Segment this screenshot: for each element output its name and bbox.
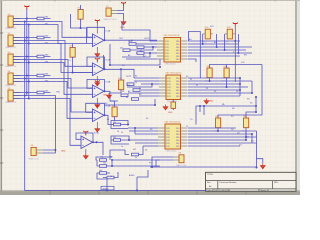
feedback wire IC2A bbox=[87, 57, 105, 69]
wire X5 to X6 bbox=[13, 96, 55, 154]
svg-text:GND: GND bbox=[61, 151, 66, 153]
wire out IC4A bbox=[104, 115, 111, 124]
wire input 5a bbox=[13, 92, 51, 94]
svg-text:Z3: Z3 bbox=[206, 88, 208, 90]
svg-text:AGND: AGND bbox=[103, 187, 109, 190]
supply arrow below U5 bbox=[163, 105, 168, 110]
wire input 1b bbox=[13, 22, 93, 38]
wire cluster bottom bbox=[96, 157, 160, 191]
connector X4 bbox=[6, 71, 21, 87]
wire out IC2A bbox=[104, 69, 134, 78]
wire R13 bottom bbox=[109, 89, 121, 93]
svg-text:1k: 1k bbox=[121, 132, 123, 134]
svg-text:U$3 74HC4051D: U$3 74HC4051D bbox=[165, 122, 181, 124]
resistor R12 bbox=[68, 45, 75, 62]
resistor R21 bbox=[129, 41, 136, 46]
svg-text:IC3A: IC3A bbox=[106, 81, 111, 84]
wire harness U5 bbox=[104, 78, 159, 106]
wire input 4c bbox=[13, 82, 93, 119]
frame border bbox=[0, 0, 300, 195]
svg-text:WAGO-734: WAGO-734 bbox=[6, 101, 17, 104]
svg-text:Y1: Y1 bbox=[186, 126, 188, 128]
svg-text:1k: 1k bbox=[110, 176, 112, 178]
resistor R43 bbox=[205, 66, 212, 83]
wire input 3c bbox=[13, 63, 93, 95]
op-amp IC5A bbox=[81, 131, 93, 159]
svg-text:Z2: Z2 bbox=[196, 85, 198, 87]
svg-text:OUT1: OUT1 bbox=[144, 38, 150, 40]
svg-text:1k: 1k bbox=[139, 88, 141, 90]
title block bbox=[206, 172, 297, 192]
wire right trunk outer bbox=[218, 65, 262, 119]
svg-text:WAGO-734: WAGO-734 bbox=[6, 65, 17, 68]
op-amp IC4A bbox=[93, 104, 105, 132]
feedback wire IC4A bbox=[86, 103, 105, 115]
svg-text:S3: S3 bbox=[150, 129, 152, 131]
frame ticks bbox=[0, 0, 275, 195]
wire X7 VCC bbox=[117, 5, 124, 11]
svg-text:U$5 74HC4051D: U$5 74HC4051D bbox=[166, 73, 182, 75]
feedback wire IC5A bbox=[76, 133, 93, 142]
wire GND bottom bbox=[150, 166, 257, 168]
svg-text:10k: 10k bbox=[113, 122, 116, 124]
op-amp IC1A bbox=[93, 19, 105, 57]
connector X1 bbox=[6, 14, 21, 30]
wire R12 top bbox=[72, 44, 74, 48]
svg-text:AGND: AGND bbox=[129, 174, 135, 177]
svg-text:10k: 10k bbox=[68, 60, 71, 62]
wire right trunk inner bbox=[246, 97, 256, 118]
svg-text:VCC: VCC bbox=[241, 62, 246, 64]
connector X7 bbox=[104, 6, 118, 21]
resistor R26 bbox=[121, 94, 128, 97]
wire out IC3A bbox=[104, 91, 118, 101]
resistor R35 bbox=[100, 165, 107, 168]
wire R11 bottom bbox=[81, 19, 87, 44]
svg-text:1k: 1k bbox=[131, 40, 133, 42]
wire input 2c bbox=[13, 44, 93, 73]
svg-text:WAGO-734: WAGO-734 bbox=[176, 164, 187, 167]
resistor R24 bbox=[127, 83, 134, 86]
wire input 4a bbox=[13, 75, 51, 77]
wire R14 bottom bbox=[114, 116, 116, 120]
wire input 2a bbox=[13, 37, 51, 39]
svg-text:A1: A1 bbox=[140, 50, 142, 53]
wire R47 bbox=[172, 100, 174, 111]
wire mesh U3 bbox=[110, 121, 158, 161]
svg-text:Z0: Z0 bbox=[186, 76, 188, 78]
svg-text:A2: A2 bbox=[128, 90, 130, 93]
wire X7 GND bbox=[117, 14, 124, 20]
svg-text:TITLE:: TITLE: bbox=[207, 174, 214, 176]
wire X8 bbox=[152, 157, 173, 167]
svg-text:Z1: Z1 bbox=[190, 79, 192, 81]
resistor R2 bbox=[37, 36, 44, 39]
svg-text:4k7: 4k7 bbox=[127, 85, 130, 87]
wire R13 top bbox=[120, 69, 122, 80]
resistor R34 bbox=[100, 159, 107, 162]
resistor R37 bbox=[107, 176, 114, 179]
op-amp IC3A bbox=[93, 80, 105, 108]
svg-text:WAGO-734: WAGO-734 bbox=[29, 158, 40, 161]
IC U$4 bbox=[157, 35, 188, 66]
svg-text:GND: GND bbox=[168, 112, 173, 114]
svg-text:1k: 1k bbox=[135, 82, 137, 84]
svg-text:A0: A0 bbox=[128, 54, 130, 57]
resistor R1 bbox=[37, 17, 44, 20]
resistor R44 bbox=[222, 66, 229, 83]
supply arrow mid bbox=[204, 99, 209, 104]
svg-text:WAGO-734-2P: WAGO-734-2P bbox=[104, 18, 118, 21]
wire harness U4 bbox=[104, 22, 162, 71]
svg-text:IC5A: IC5A bbox=[94, 132, 99, 135]
svg-text:10k: 10k bbox=[113, 137, 116, 139]
resistor R11 bbox=[78, 7, 84, 19]
svg-text:WAGO-734: WAGO-734 bbox=[6, 27, 17, 30]
wire input 1c bbox=[13, 25, 93, 44]
svg-text:Sheet: 1/1: Sheet: 1/1 bbox=[261, 189, 270, 192]
svg-text:1k: 1k bbox=[117, 131, 119, 133]
wire VCC drop bbox=[233, 22, 237, 26]
wire out IC5A bbox=[93, 142, 104, 155]
wire pullup tops 2 bbox=[210, 65, 263, 69]
resistor R27 bbox=[132, 98, 139, 101]
op-amp IC2A bbox=[93, 58, 105, 86]
page background bbox=[0, 0, 300, 195]
svg-text:WAGO-734: WAGO-734 bbox=[6, 46, 17, 49]
svg-text:Y0: Y0 bbox=[190, 119, 192, 121]
svg-text:1k: 1k bbox=[135, 157, 137, 159]
svg-text:Rev:: Rev: bbox=[207, 182, 211, 184]
resistor R45 bbox=[214, 116, 221, 133]
svg-text:74HC4051D: 74HC4051D bbox=[165, 64, 177, 66]
resistor R33 bbox=[132, 153, 139, 156]
net label box bbox=[101, 186, 114, 190]
VCC rail bbox=[26, 9, 28, 97]
feedback wire IC3A bbox=[87, 80, 105, 92]
svg-text:Document Number:: Document Number: bbox=[220, 181, 238, 184]
connector X8 bbox=[173, 153, 187, 167]
svg-text:A4: A4 bbox=[209, 185, 211, 188]
svg-text:TN5: TN5 bbox=[56, 92, 60, 94]
wire input 3a bbox=[13, 56, 51, 58]
resistor R4 bbox=[37, 74, 44, 77]
wire R11 top bbox=[80, 5, 82, 10]
svg-text:1k: 1k bbox=[121, 146, 123, 148]
connector X6 bbox=[29, 145, 44, 160]
svg-text:OUT2: OUT2 bbox=[126, 76, 131, 78]
svg-text:10k: 10k bbox=[101, 157, 104, 159]
wire pair3 bottoms bbox=[218, 127, 246, 137]
wire U3 right rails bbox=[188, 105, 263, 169]
wire stub bbox=[71, 14, 81, 28]
svg-text:74HC4051D: 74HC4051D bbox=[166, 151, 178, 153]
feedback wire IC1A bbox=[87, 27, 105, 40]
svg-text:IC1A: IC1A bbox=[106, 30, 111, 33]
svg-text:REV:: REV: bbox=[274, 182, 279, 184]
resistor R13 bbox=[118, 78, 124, 90]
wire R12 bottom bbox=[73, 57, 93, 73]
resistor R42 bbox=[225, 27, 235, 44]
svg-text:10k: 10k bbox=[103, 162, 106, 164]
connector X2 bbox=[6, 33, 21, 49]
resistor R3 bbox=[37, 55, 44, 58]
wire input 1a bbox=[13, 18, 51, 20]
resistor R46 bbox=[242, 116, 249, 133]
shield rail bbox=[28, 25, 30, 99]
svg-text:Z4: Z4 bbox=[214, 91, 216, 93]
IC U$5 bbox=[159, 73, 188, 104]
wire U4 right rails bbox=[188, 34, 252, 62]
GND rail bbox=[25, 22, 206, 191]
wire U5 right rails bbox=[188, 32, 253, 97]
wire input 4b bbox=[13, 79, 93, 113]
svg-text:4k7: 4k7 bbox=[120, 48, 123, 50]
resistor R47 bbox=[171, 102, 176, 108]
resistor R14 bbox=[112, 105, 118, 117]
svg-text:1k: 1k bbox=[128, 41, 130, 43]
wire out IC1A bbox=[104, 39, 157, 41]
resistor R23 bbox=[123, 49, 130, 52]
svg-text:U$4 74HC4051D: U$4 74HC4051D bbox=[164, 35, 180, 37]
wire input 5c bbox=[13, 99, 81, 146]
ground symbol bbox=[260, 163, 265, 168]
svg-text:WAGO-734: WAGO-734 bbox=[6, 84, 17, 87]
resistor R5 bbox=[37, 91, 44, 94]
resistor R32 bbox=[114, 139, 121, 142]
resistor R28 bbox=[137, 52, 144, 55]
resistor R36 bbox=[100, 172, 107, 175]
svg-text:S2: S2 bbox=[146, 118, 148, 120]
svg-text:4k7: 4k7 bbox=[133, 149, 136, 151]
svg-text:B0: B0 bbox=[139, 94, 141, 96]
svg-text:GND: GND bbox=[120, 27, 125, 29]
resistor R22 bbox=[137, 46, 144, 49]
connector X5 bbox=[6, 88, 21, 104]
svg-text:VCC: VCC bbox=[210, 26, 215, 28]
svg-text:10k: 10k bbox=[99, 170, 102, 172]
connector X3 bbox=[6, 52, 21, 68]
svg-text:B1: B1 bbox=[126, 97, 128, 99]
svg-text:GND: GND bbox=[209, 101, 214, 103]
wire R14 top bbox=[110, 101, 115, 107]
wire input 2b bbox=[13, 41, 93, 67]
resistor R25 bbox=[133, 89, 140, 92]
wire input 3b bbox=[13, 60, 93, 89]
svg-text:Date: 4/27/2011 5:05:09 PM: Date: 4/27/2011 5:05:09 PM bbox=[207, 189, 231, 192]
resistor R31 bbox=[114, 123, 121, 126]
resistor R41 bbox=[203, 27, 213, 44]
IC U$3 bbox=[158, 122, 188, 153]
svg-text:S0: S0 bbox=[105, 103, 107, 105]
svg-text:1k: 1k bbox=[122, 91, 124, 93]
